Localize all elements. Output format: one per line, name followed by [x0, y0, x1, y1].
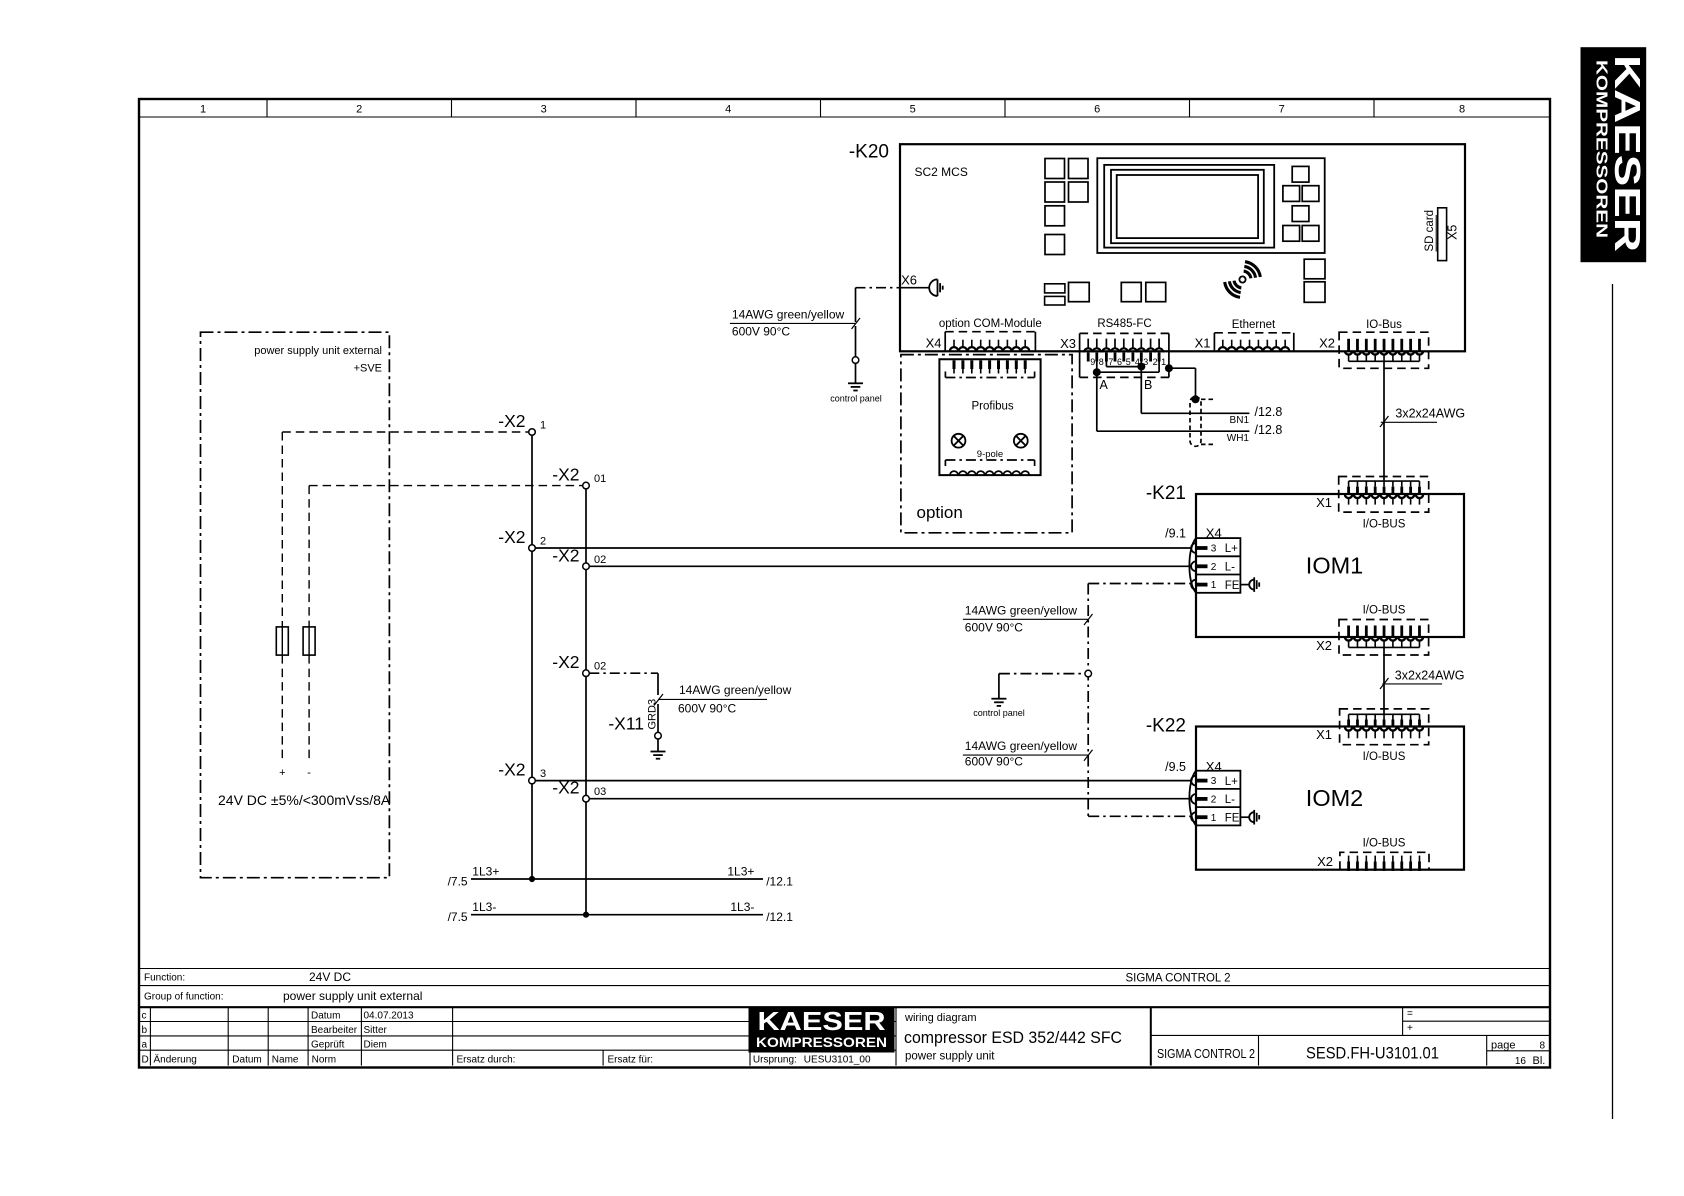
svg-text:L-: L- [1225, 794, 1235, 806]
svg-text:+: + [279, 767, 285, 779]
svg-text:SESD.FH-U3101.01: SESD.FH-U3101.01 [1306, 1044, 1439, 1063]
svg-text:Ethernet: Ethernet [1232, 319, 1276, 331]
drawing frame border [139, 99, 1550, 1068]
connector X4 on K20 (option COM-Module) [926, 318, 1042, 351]
svg-text:Änderung: Änderung [154, 1054, 197, 1066]
IOM1 FE functional earth symbol [1240, 577, 1259, 592]
X3 internal jumper pins 8-1 with node A [1093, 362, 1159, 377]
IOM1 connector X2 (I/O-BUS bottom) [1316, 605, 1429, 656]
wire: +24V dashed from power supply to -X2:1 [279, 432, 529, 779]
Profibus cable-side scalloped edge [945, 460, 1034, 475]
svg-text:Ersatz für:: Ersatz für: [608, 1055, 654, 1066]
svg-text:1: 1 [540, 420, 546, 432]
svg-text:BN1: BN1 [1230, 415, 1250, 426]
svg-text:02: 02 [594, 661, 606, 673]
svg-text:/12.1: /12.1 [766, 910, 793, 924]
svg-text:I/O-BUS: I/O-BUS [1363, 751, 1406, 763]
KAESER KOMPRESSOREN logo (top right, rotated) [1581, 48, 1648, 262]
svg-text:SIGMA CONTROL 2: SIGMA CONTROL 2 [1125, 973, 1230, 985]
wire gauge label 14AWG (GRD3) [654, 683, 792, 716]
svg-text:1L3+: 1L3+ [472, 865, 499, 879]
svg-text:a: a [142, 1040, 148, 1051]
wire: -X2:2 to IOM1 X4:3 L+ [535, 547, 1191, 549]
svg-text:SIGMA CONTROL 2: SIGMA CONTROL 2 [1157, 1046, 1255, 1061]
svg-text:-X11: -X11 [608, 714, 644, 734]
svg-text:1: 1 [1211, 813, 1217, 824]
svg-text:+SVE: +SVE [354, 363, 382, 375]
module -K22 (IOM2) box [1146, 716, 1464, 870]
svg-text:X3: X3 [1060, 336, 1076, 351]
svg-text:600V 90°C: 600V 90°C [965, 621, 1024, 635]
title block: Function row [139, 969, 1550, 986]
svg-text:3: 3 [540, 768, 546, 780]
terminal -X2:02 (to -X11 ground) [552, 652, 606, 676]
svg-text:I/O-BUS: I/O-BUS [1363, 605, 1406, 617]
svg-text:5: 5 [910, 104, 916, 116]
wire: bus L+ vertical (x=532) [531, 435, 533, 879]
connector X1 on K20 (Ethernet) [1195, 319, 1294, 352]
KAESER KOMPRESSOREN logo (title block) [749, 1006, 894, 1052]
title block table grid [139, 1007, 1550, 1065]
svg-text:04.07.2013: 04.07.2013 [364, 1011, 414, 1022]
svg-text:600V 90°C: 600V 90°C [965, 755, 1024, 769]
K20 right button group [1283, 166, 1319, 241]
svg-text:IOM1: IOM1 [1306, 553, 1363, 579]
svg-text:Sitter: Sitter [364, 1025, 388, 1036]
terminal -X2:1 [498, 411, 546, 435]
svg-text:/7.5: /7.5 [448, 875, 468, 889]
svg-text:I/O-BUS: I/O-BUS [1363, 838, 1406, 850]
X3 internal jumper pins 7-3 with node B [1106, 362, 1145, 371]
svg-text:=: = [1407, 1009, 1413, 1020]
svg-text:Datum: Datum [232, 1055, 261, 1066]
svg-text:I/O-BUS: I/O-BUS [1363, 519, 1406, 531]
svg-text:-: - [307, 767, 311, 779]
svg-text:2: 2 [1153, 357, 1158, 367]
svg-text:B: B [1144, 378, 1152, 392]
svg-text:02: 02 [594, 554, 606, 566]
svg-text:Group of function:: Group of function: [144, 992, 224, 1003]
svg-text:+: + [1407, 1023, 1413, 1034]
wire A from X3 pin 8 [1097, 372, 1250, 431]
svg-text:X4: X4 [1206, 759, 1222, 774]
svg-text:7: 7 [1279, 104, 1285, 116]
title block right: = / + cells [1151, 1007, 1550, 1035]
svg-text:5: 5 [1126, 357, 1131, 367]
svg-text:-K22: -K22 [1146, 716, 1186, 737]
ground GRD3 [651, 739, 666, 759]
svg-text:-X2: -X2 [498, 527, 525, 547]
svg-text:KAESER: KAESER [1607, 55, 1648, 252]
wire: -X2:02 dash-dot to GRD3 [589, 673, 658, 732]
IOM1 terminal block X4 [1165, 526, 1240, 593]
svg-text:3: 3 [1211, 544, 1217, 555]
svg-text:Function:: Function: [144, 973, 185, 984]
IOM1 connector X1 (I/O-BUS top) [1316, 477, 1429, 531]
wire: X6 to control panel ground [856, 288, 901, 357]
K20 lower buttons centre [1121, 282, 1165, 301]
twisted pair cable shield symbol [1190, 397, 1213, 447]
svg-text:FE: FE [1225, 812, 1240, 824]
svg-text:X1: X1 [1316, 727, 1332, 742]
svg-text:L+: L+ [1225, 543, 1238, 555]
SD card slot X5 [1424, 208, 1460, 261]
svg-text:7: 7 [1108, 357, 1113, 367]
wire gauge label 14AWG (IOM1 FE) [963, 603, 1093, 634]
svg-text:Bearbeiter: Bearbeiter [311, 1025, 358, 1036]
svg-text:option: option [917, 503, 963, 522]
svg-text:-X2: -X2 [498, 411, 525, 431]
svg-text:2: 2 [1211, 795, 1217, 806]
svg-text:-X2: -X2 [498, 760, 525, 780]
svg-text:control panel: control panel [973, 708, 1025, 718]
svg-text:/12.1: /12.1 [766, 875, 793, 889]
svg-text:3x2x24AWG: 3x2x24AWG [1395, 669, 1465, 683]
cable IOM1 X2 to IOM2 X1 (3x2x24AWG) [1380, 647, 1465, 714]
svg-text:SD card: SD card [1424, 210, 1436, 252]
wire: -X2:03 to IOM2 X4:2 L- [589, 798, 1191, 800]
IOM2 connector X1 (I/O-BUS top) [1316, 709, 1429, 763]
svg-text:L+: L+ [1225, 776, 1238, 788]
svg-text:03: 03 [594, 786, 606, 798]
svg-text:24V DC ±5%/<300mVss/8A: 24V DC ±5%/<300mVss/8A [218, 792, 391, 808]
svg-text:GRD3: GRD3 [647, 699, 659, 730]
svg-text:UESU3101_00: UESU3101_00 [804, 1055, 871, 1066]
svg-text:/12.8: /12.8 [1255, 423, 1283, 437]
svg-text:/7.5: /7.5 [448, 910, 468, 924]
svg-text:power supply unit external: power supply unit external [254, 345, 382, 357]
svg-text:Diem: Diem [364, 1040, 387, 1051]
svg-text:3: 3 [1211, 776, 1217, 787]
svg-text:option COM-Module: option COM-Module [939, 318, 1042, 330]
terminal -X2:2 [498, 527, 546, 551]
controller -K20 box (SC2 MCS) [849, 142, 1465, 352]
svg-text:-X2: -X2 [552, 465, 579, 485]
svg-text:KAESER: KAESER [758, 1006, 886, 1036]
svg-text:2: 2 [356, 104, 362, 116]
svg-text:X4: X4 [926, 336, 942, 351]
svg-text:Ursprung:: Ursprung: [753, 1055, 797, 1066]
svg-text:X2: X2 [1317, 854, 1333, 869]
svg-text:2: 2 [540, 536, 546, 548]
svg-text:X1: X1 [1316, 495, 1332, 510]
svg-text:WH1: WH1 [1227, 433, 1250, 444]
net label GRD3 (rotated) [647, 699, 659, 730]
svg-text:Geprüft: Geprüft [311, 1040, 345, 1051]
svg-text:Bl.: Bl. [1533, 1055, 1546, 1067]
svg-text:X2: X2 [1319, 336, 1335, 351]
svg-text:L-: L- [1225, 562, 1235, 574]
svg-text:6: 6 [1117, 357, 1122, 367]
svg-text:/9.5: /9.5 [1165, 760, 1186, 774]
terminal -X11 [608, 714, 661, 740]
title block left table texts [142, 1011, 871, 1066]
terminal -X2:02 (to IOM1 L-) [552, 545, 606, 569]
control panel ground node [830, 357, 882, 404]
wire: bus L- vertical (x=586) [585, 489, 587, 915]
svg-text:SC2 MCS: SC2 MCS [915, 165, 968, 179]
svg-text:KOMPRESSOREN: KOMPRESSOREN [1593, 60, 1610, 238]
svg-text:8: 8 [1459, 104, 1465, 116]
connector X6 (functional earth on K20) [900, 273, 943, 297]
Profibus screw left [952, 434, 966, 448]
svg-text:6: 6 [1094, 104, 1100, 116]
right margin vertical line [1612, 284, 1614, 1119]
svg-text:RS485-FC: RS485-FC [1097, 318, 1151, 330]
svg-text:16: 16 [1515, 1056, 1527, 1067]
svg-text:9: 9 [1090, 357, 1095, 367]
svg-text:Name: Name [272, 1055, 299, 1066]
svg-text:b: b [142, 1025, 148, 1036]
svg-text:24V DC: 24V DC [309, 970, 351, 984]
svg-text:4: 4 [725, 104, 731, 116]
power supply unit external box (+SVE) [201, 332, 391, 878]
title block: drawing description [904, 1012, 1122, 1063]
svg-text:1L3-: 1L3- [472, 900, 496, 914]
svg-text:/9.1: /9.1 [1165, 527, 1186, 541]
svg-text:control panel: control panel [830, 394, 882, 404]
module -K21 (IOM1) box [1146, 483, 1464, 637]
terminal -X2:3 [498, 760, 546, 784]
wire B from X3 pin 3 [1141, 367, 1249, 414]
wire gauge label 14AWG (X6) [730, 307, 860, 338]
svg-text:Ersatz durch:: Ersatz durch: [457, 1055, 516, 1066]
wire from X3 pin 1 to cable shield [1165, 364, 1200, 403]
wire 1L3+ rail [448, 865, 794, 889]
svg-text:600V 90°C: 600V 90°C [678, 702, 737, 716]
svg-text:8: 8 [1099, 357, 1104, 367]
svg-text:Profibus: Profibus [972, 401, 1014, 413]
K20 lower buttons left [1045, 282, 1090, 305]
IOM2 FE functional earth symbol [1240, 810, 1259, 825]
connector X2 on K20 (IO-Bus) [1319, 319, 1429, 368]
K20 RFID antenna icon [1225, 262, 1261, 298]
svg-text:Norm: Norm [312, 1055, 336, 1066]
svg-text:-X2: -X2 [552, 652, 579, 672]
svg-text:X1: X1 [1195, 336, 1211, 351]
IOM2 terminal block X4 [1165, 759, 1240, 825]
svg-text:14AWG green/yellow: 14AWG green/yellow [965, 739, 1078, 753]
svg-text:D: D [142, 1055, 149, 1066]
svg-text:-K20: -K20 [849, 142, 889, 163]
title block: Group of function row [144, 989, 422, 1003]
wire: -24V dashed from power supply to -X2:01 [307, 486, 582, 779]
svg-text:A: A [1100, 378, 1109, 392]
svg-text:01: 01 [594, 473, 606, 485]
svg-text:1L3-: 1L3- [730, 900, 754, 914]
svg-text:14AWG green/yellow: 14AWG green/yellow [965, 603, 1078, 617]
svg-text:8: 8 [1539, 1041, 1545, 1052]
Profibus screw right [1014, 434, 1028, 448]
column numbers 1-8 [200, 104, 1465, 116]
terminal -X2:01 [552, 465, 606, 489]
svg-text:3x2x24AWG: 3x2x24AWG [1395, 407, 1465, 421]
svg-text:power supply unit: power supply unit [905, 1051, 995, 1063]
svg-text:X6: X6 [901, 273, 917, 288]
svg-text:2: 2 [1211, 562, 1217, 573]
svg-text:c: c [142, 1011, 147, 1022]
fuse F+ [276, 627, 288, 655]
svg-text:page: page [1491, 1040, 1515, 1052]
wire labels BN1 / WH1 / page refs [1227, 405, 1283, 444]
terminal -X2:03 [552, 778, 606, 802]
svg-text:compressor ESD 352/442 SFC: compressor ESD 352/442 SFC [904, 1028, 1122, 1047]
svg-text:1L3+: 1L3+ [727, 865, 754, 879]
svg-text:14AWG green/yellow: 14AWG green/yellow [732, 307, 845, 321]
svg-text:X2: X2 [1316, 638, 1332, 653]
svg-text:1: 1 [1211, 580, 1217, 591]
svg-text:-K21: -K21 [1146, 483, 1186, 504]
svg-text:KOMPRESSOREN: KOMPRESSOREN [756, 1035, 887, 1050]
svg-text:Datum: Datum [311, 1011, 340, 1022]
svg-text:IO-Bus: IO-Bus [1366, 319, 1402, 331]
fuse F- [303, 627, 315, 655]
svg-text:X5: X5 [1446, 225, 1460, 240]
K20 lower buttons right [1304, 259, 1325, 302]
control panel ground (FE net) [973, 670, 1091, 718]
IOM2 connector X2 (I/O-BUS bottom, open) [1317, 838, 1429, 872]
K20 display [1097, 158, 1324, 253]
svg-text:wiring diagram: wiring diagram [904, 1012, 977, 1024]
svg-text:600V 90°C: 600V 90°C [732, 325, 791, 339]
svg-text:9-pole: 9-pole [977, 449, 1003, 460]
svg-text:3: 3 [541, 104, 547, 116]
svg-text:FE: FE [1225, 580, 1240, 592]
svg-text:/12.8: /12.8 [1255, 405, 1283, 419]
wire 1L3- rail [448, 900, 794, 924]
wire: FE dash-dot net to IOM1/IOM2 with earth [1088, 584, 1191, 817]
wire gauge label 14AWG (IOM2 FE) [963, 739, 1093, 768]
svg-text:14AWG green/yellow: 14AWG green/yellow [679, 683, 792, 697]
svg-text:1: 1 [1161, 357, 1166, 367]
svg-text:IOM2: IOM2 [1306, 785, 1363, 811]
K20 left button group [1045, 159, 1088, 255]
connector X3 on K20 (RS485-FC) [1060, 318, 1169, 377]
cable K20 X2 to IOM1 X1 (3x2x24AWG) [1380, 361, 1465, 481]
wire: -X2:3 to IOM2 X4:3 L+ [535, 780, 1191, 782]
wire: -X2:02 to IOM1 X4:2 L- [589, 565, 1191, 567]
option COM-Module dashed box [901, 355, 1072, 533]
svg-text:power supply unit external: power supply unit external [283, 989, 422, 1003]
svg-text:1: 1 [200, 104, 206, 116]
Profibus plug (9-pole) [939, 359, 1040, 475]
title block right: SIGMA CONTROL 2 / SESD.FH-U3101.01 / page [1157, 1035, 1550, 1067]
